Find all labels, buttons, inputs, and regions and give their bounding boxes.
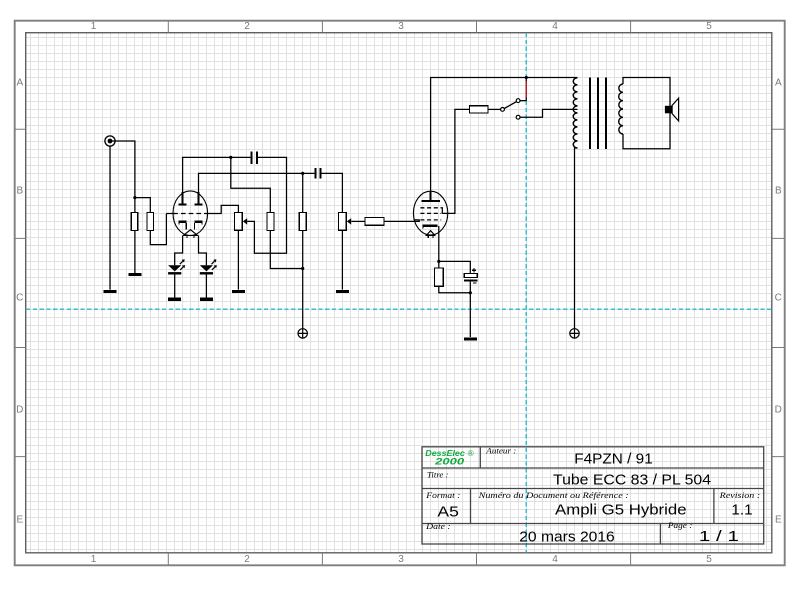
svg-text:E: E	[775, 515, 782, 526]
svg-text:3: 3	[398, 554, 404, 565]
svg-text:D: D	[775, 405, 782, 416]
svg-text:1 / 1: 1 / 1	[699, 529, 739, 545]
svg-text:B: B	[16, 186, 23, 197]
svg-text:Page :: Page :	[667, 520, 693, 530]
svg-text:D: D	[16, 405, 23, 416]
svg-text:2: 2	[244, 554, 250, 565]
svg-text:Titre :: Titre :	[427, 469, 449, 479]
svg-text:1.1: 1.1	[731, 503, 752, 519]
svg-text:4: 4	[552, 554, 558, 565]
svg-text:3: 3	[398, 21, 404, 32]
svg-text:Revision :: Revision :	[719, 490, 761, 500]
svg-text:C: C	[775, 293, 782, 304]
svg-text:E: E	[16, 515, 23, 526]
svg-text:5: 5	[706, 21, 712, 32]
svg-text:Ampli G5 Hybride: Ampli G5 Hybride	[555, 503, 687, 519]
svg-text:A5: A5	[437, 504, 459, 520]
svg-text:Date :: Date :	[425, 521, 451, 531]
svg-text:Tube ECC 83 / PL 504: Tube ECC 83 / PL 504	[553, 472, 711, 488]
svg-text:5: 5	[706, 554, 712, 565]
svg-text:1: 1	[91, 554, 97, 565]
svg-text:®: ®	[468, 449, 474, 458]
svg-text:Numéro du Document ou Référenc: Numéro du Document ou Référence :	[477, 490, 628, 500]
svg-text:2000: 2000	[434, 456, 464, 466]
svg-text:F4PZN / 91: F4PZN / 91	[574, 452, 653, 468]
svg-text:C: C	[16, 293, 23, 304]
svg-text:B: B	[775, 186, 782, 197]
svg-text:A: A	[775, 78, 782, 89]
svg-text:Format :: Format :	[425, 490, 460, 500]
svg-text:Auteur :: Auteur :	[485, 445, 516, 455]
svg-text:1: 1	[91, 21, 97, 32]
svg-text:2: 2	[244, 21, 250, 32]
svg-text:A: A	[16, 78, 23, 89]
svg-text:20 mars 2016: 20 mars 2016	[519, 529, 615, 545]
svg-text:4: 4	[552, 21, 558, 32]
